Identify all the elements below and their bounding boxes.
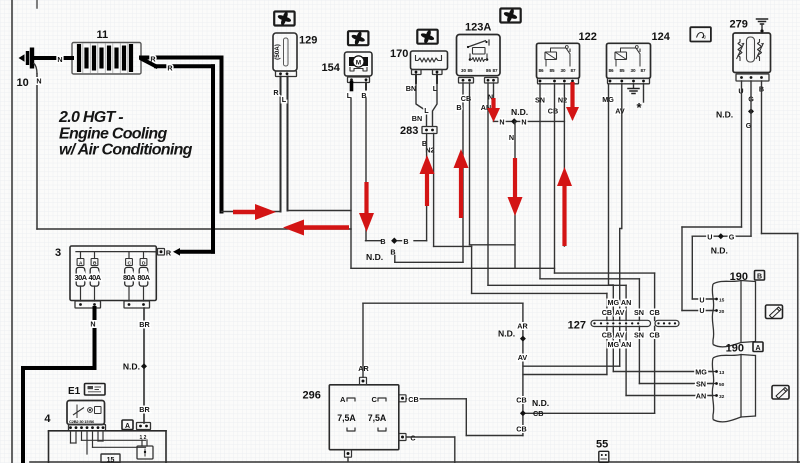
svg-text:C: C [127, 260, 131, 266]
svg-text:SN: SN [634, 308, 644, 317]
svg-text:BN: BN [412, 114, 422, 123]
svg-text:B: B [380, 237, 385, 246]
svg-text:190: 190 [726, 343, 744, 355]
svg-text:N.D.: N.D. [716, 110, 733, 120]
svg-text:N.D.: N.D. [532, 398, 549, 408]
svg-text:30A: 30A [74, 273, 87, 282]
svg-text:CB: CB [602, 331, 612, 340]
svg-text:40A: 40A [88, 273, 101, 282]
svg-text:CB: CB [516, 396, 526, 405]
svg-text:85: 85 [550, 68, 556, 73]
svg-text:N.D.: N.D. [711, 246, 728, 256]
svg-text:E1: E1 [68, 386, 81, 397]
svg-text:BR: BR [139, 405, 150, 414]
svg-text:D: D [142, 260, 146, 266]
svg-text:85: 85 [468, 68, 474, 73]
svg-text:M: M [356, 59, 361, 66]
svg-text:c: c [703, 35, 706, 41]
svg-text:N: N [90, 320, 95, 329]
svg-text:CB: CB [533, 409, 543, 418]
svg-text:MG: MG [695, 368, 707, 377]
svg-text:AV: AV [615, 308, 625, 317]
svg-text:C: C [372, 395, 378, 404]
svg-text:AN: AN [621, 298, 631, 307]
svg-text:1 2: 1 2 [140, 435, 147, 441]
svg-text:SN: SN [696, 380, 706, 389]
svg-text:N.D.: N.D. [123, 362, 140, 372]
svg-text:B: B [93, 260, 97, 266]
svg-text:CB: CB [649, 331, 659, 340]
svg-text:86: 86 [486, 68, 492, 73]
svg-text:MG: MG [608, 298, 620, 307]
svg-text:10: 10 [17, 77, 29, 89]
svg-text:N: N [521, 118, 526, 127]
svg-text:124: 124 [652, 31, 671, 43]
svg-text:AV: AV [615, 107, 625, 116]
svg-text:B: B [403, 237, 408, 246]
svg-text:R: R [166, 248, 172, 257]
svg-text:20: 20 [719, 309, 725, 315]
svg-text:15: 15 [719, 298, 725, 304]
svg-text:55: 55 [596, 439, 608, 451]
svg-text:87: 87 [493, 68, 499, 73]
svg-text:127: 127 [568, 320, 586, 332]
svg-text:C2B2 30 15 B6: C2B2 30 15 B6 [69, 419, 95, 424]
svg-text:N.D.: N.D. [511, 107, 528, 117]
svg-text:123A: 123A [465, 22, 491, 34]
svg-text:Engine Cooling: Engine Cooling [59, 125, 167, 142]
svg-text:283: 283 [400, 125, 418, 137]
svg-text:U: U [707, 233, 712, 242]
svg-text:A: A [79, 260, 83, 266]
svg-text:R: R [273, 88, 279, 97]
svg-text:CB: CB [649, 308, 659, 317]
svg-text:R: R [167, 64, 173, 73]
svg-text:11: 11 [97, 29, 109, 41]
svg-text:A: A [125, 423, 130, 430]
svg-text:B: B [757, 273, 762, 280]
svg-text:B: B [456, 103, 461, 112]
svg-text:3: 3 [55, 247, 61, 259]
svg-text:50: 50 [719, 382, 725, 388]
svg-text:AN: AN [621, 340, 631, 349]
svg-text:G: G [729, 233, 735, 242]
svg-text:80A: 80A [137, 273, 150, 282]
svg-text:U: U [699, 296, 704, 305]
svg-text:7,5A: 7,5A [368, 413, 387, 423]
svg-text:4: 4 [44, 413, 51, 425]
svg-text:A: A [340, 395, 346, 404]
svg-text:L: L [282, 95, 287, 104]
svg-text:N: N [57, 55, 62, 64]
svg-text:279: 279 [730, 19, 748, 31]
svg-text:30: 30 [461, 68, 467, 73]
svg-text:32: 32 [719, 394, 725, 400]
svg-text:A: A [755, 345, 760, 352]
svg-text:2.0 HGT -: 2.0 HGT - [58, 109, 123, 126]
svg-text:122: 122 [579, 31, 597, 43]
svg-text:CB: CB [602, 308, 612, 317]
svg-text:AR: AR [358, 364, 369, 373]
svg-text:MG: MG [608, 340, 620, 349]
svg-text:C: C [410, 434, 415, 443]
svg-text:N: N [509, 133, 514, 142]
svg-text:N.D.: N.D. [498, 329, 515, 339]
svg-text:BR: BR [139, 320, 150, 329]
svg-text:N.D.: N.D. [366, 252, 383, 262]
svg-text:AR: AR [517, 322, 528, 331]
svg-text:80A: 80A [123, 273, 136, 282]
svg-text:296: 296 [303, 390, 321, 402]
svg-text:w/ Air Conditioning: w/ Air Conditioning [59, 142, 193, 159]
svg-text:CB: CB [408, 395, 418, 404]
svg-text:AV: AV [518, 353, 528, 362]
svg-text:N: N [499, 118, 504, 127]
svg-text:CB: CB [516, 425, 526, 434]
svg-text:86: 86 [609, 68, 615, 73]
svg-text:87: 87 [571, 68, 577, 73]
svg-text:L: L [424, 106, 429, 115]
svg-text:U: U [699, 306, 704, 315]
svg-text:13: 13 [719, 370, 725, 376]
svg-text:BN: BN [406, 84, 416, 93]
svg-text:129: 129 [299, 35, 317, 47]
svg-text:30: 30 [561, 68, 567, 73]
svg-text:7,5A: 7,5A [337, 413, 356, 423]
svg-text:154: 154 [322, 62, 341, 74]
svg-text:N2: N2 [558, 96, 567, 105]
svg-text:86: 86 [539, 68, 545, 73]
svg-text:SN: SN [634, 331, 644, 340]
svg-text:15: 15 [107, 457, 115, 463]
svg-text:CB: CB [548, 107, 558, 116]
svg-text:85: 85 [620, 68, 626, 73]
svg-text:170: 170 [390, 48, 408, 60]
svg-text:AV: AV [615, 331, 625, 340]
svg-text:N: N [36, 77, 41, 86]
svg-text:30: 30 [631, 68, 637, 73]
svg-text:(50A): (50A) [274, 44, 281, 60]
svg-text:AN: AN [696, 392, 706, 401]
svg-text:87: 87 [641, 68, 647, 73]
